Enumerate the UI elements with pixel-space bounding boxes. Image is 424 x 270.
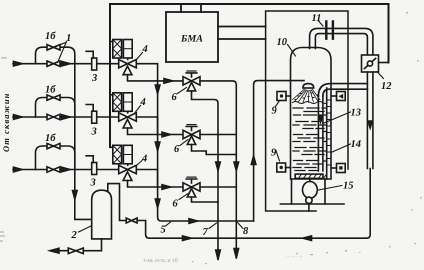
row 2 main pipe — [13, 117, 158, 135]
actuator U row3 — [127, 164, 129, 166]
wire return from 12 pipe — [366, 169, 370, 239]
bypass loop row 3 — [36, 146, 75, 170]
sensor 9 lower right — [337, 164, 346, 173]
leader 2 — [79, 226, 92, 232]
valve on vessel2 outlet — [126, 218, 137, 223]
svg-text:6: 6 — [172, 92, 178, 103]
water shading — [293, 108, 326, 171]
valve drain vessel2 — [68, 248, 83, 254]
perforated plate — [295, 174, 323, 178]
svg-text:4: 4 — [142, 44, 148, 55]
leader 5 — [166, 222, 171, 226]
regulator 12 — [362, 55, 379, 72]
valve row 3 main — [47, 167, 60, 172]
valve 6 row3 — [158, 186, 183, 188]
arrow line7 down mid — [216, 162, 221, 171]
wire vessel2 top to valve — [108, 184, 367, 239]
leader 4 r2 — [135, 106, 141, 113]
enclosure room — [266, 11, 348, 211]
svg-text:9: 9 — [272, 106, 278, 117]
BMA unit — [166, 12, 218, 62]
svg-text:13: 13 — [351, 108, 362, 119]
wire common vertical to vessel 2 — [75, 64, 92, 220]
wire control to row3 actuator — [110, 146, 113, 148]
svg-text:1б: 1б — [45, 31, 56, 42]
arrow line8 down mid — [234, 162, 239, 171]
arrow row1 inlet — [14, 61, 23, 66]
leader 4 r3 — [136, 161, 142, 167]
bypass loop row 2 — [36, 98, 75, 118]
svg-text:12: 12 — [381, 81, 392, 92]
valve 1b row 1 — [47, 45, 60, 50]
arrow manifold down c — [155, 199, 160, 208]
actuator U row2 — [127, 111, 129, 113]
svg-text:8: 8 — [243, 226, 249, 237]
leader 8 — [238, 223, 244, 229]
arrow drain left — [50, 248, 59, 253]
wire control to row2 actuator — [110, 94, 113, 96]
arrow riser up — [251, 156, 256, 165]
valve 1b row 3 — [47, 143, 60, 148]
svg-text:3: 3 — [90, 178, 96, 189]
tank legs — [292, 179, 326, 204]
wire valve6 r3 bottom port — [192, 197, 219, 202]
wire riser to sprayer — [254, 81, 304, 221]
arrow line7 down end — [216, 250, 221, 260]
svg-text:4: 4 — [141, 154, 147, 165]
leader 10 — [288, 45, 296, 57]
arrow row1 after valve — [62, 61, 71, 66]
frame top pipe — [110, 4, 389, 147]
arrow row2 inlet — [14, 115, 23, 120]
double pipe below 12 — [367, 72, 373, 169]
valve 6 row1 — [158, 80, 183, 82]
svg-text:БМА: БМА — [180, 34, 203, 45]
leader 6 r1 — [178, 88, 187, 94]
valve 4 row 2 three-way — [119, 113, 137, 121]
leader 9 lower — [276, 151, 280, 162]
leader 4 r1 — [137, 53, 143, 60]
svg-text:2: 2 — [71, 230, 78, 241]
valve 4 row 3 three-way — [119, 165, 137, 173]
sensor 9 upper left — [277, 92, 286, 101]
orifice 11 flanges — [326, 22, 333, 39]
svg-text:1: 1 — [66, 33, 71, 44]
leader label 1 row1 — [56, 42, 67, 62]
arrow line5 right — [189, 219, 198, 224]
leader 11 — [319, 21, 324, 26]
actuator U row1 — [127, 58, 129, 60]
valve 4 row 1 three-way — [119, 60, 137, 68]
svg-text:6: 6 — [173, 199, 179, 210]
wire BMA top stubs — [181, 4, 201, 12]
wire 12 to frame — [379, 62, 389, 64]
scan specks — [406, 12, 408, 14]
valve 6 row2 — [158, 134, 183, 136]
arrow return right — [183, 236, 192, 241]
svg-text:14: 14 — [351, 139, 362, 150]
wire manifold 5 vertical — [158, 81, 254, 221]
svg-text:4: 4 — [140, 97, 146, 108]
wire vessel2 drain — [57, 239, 102, 251]
arrow row2 after valve — [62, 115, 71, 120]
pump 15 — [309, 178, 311, 181]
scan smudges left edge — [0, 232, 5, 241]
water surface — [293, 102, 328, 104]
device 3 row 3 — [92, 163, 97, 175]
valve 1 row 1 — [47, 61, 60, 66]
device 3 row 1 — [92, 58, 97, 70]
valve row 2 main — [47, 114, 60, 119]
row 3 main pipe — [13, 170, 158, 188]
dip pipe 13 with elbow — [318, 96, 323, 171]
gauge 14 ticks — [327, 100, 331, 165]
svg-text:3: 3 — [91, 127, 97, 138]
leader 15 — [319, 186, 343, 191]
wire valve6 r2 bottom port — [192, 145, 237, 155]
arrow row3 after valve — [62, 167, 71, 172]
sprayer nozzle — [303, 84, 314, 88]
arrow row3 inlet — [14, 167, 23, 172]
arrow down feed vessel2 — [73, 191, 78, 200]
steam outlet neck double pipe — [310, 28, 373, 55]
leader 6 r2 — [180, 140, 188, 146]
arrow return left — [303, 236, 312, 241]
svg-text:7: 7 — [203, 227, 209, 238]
svg-text:1б: 1б — [45, 85, 56, 96]
arrow in pipe13 down — [319, 116, 323, 123]
device 3 row 2 — [92, 111, 97, 123]
arrow line8 down end — [234, 249, 239, 259]
vessel 10 shell — [291, 48, 332, 180]
wire control to row1 actuator — [110, 41, 113, 43]
svg-text:10: 10 — [277, 37, 288, 48]
spray fan — [293, 89, 320, 102]
wire valve6 r1 bottom port — [192, 91, 219, 260]
sensor 9 upper right — [337, 92, 346, 101]
row 1 main pipe — [13, 64, 158, 81]
svg-text:1б: 1б — [45, 133, 56, 144]
gauge 14 inner wall — [326, 88, 328, 179]
svg-text:11: 11 — [312, 13, 322, 24]
bypass loop row 1 — [36, 47, 75, 64]
tank base line — [280, 203, 344, 205]
leader 7 — [209, 223, 217, 229]
leader 13 — [324, 112, 351, 123]
wire BMA right stubs — [218, 27, 266, 40]
valve 1b row 2 — [47, 95, 60, 100]
svg-text:.. ... . ..: .. ... . .. — [286, 253, 303, 259]
arrow manifold down a — [155, 85, 160, 94]
svg-text:От скважин: От скважин — [1, 93, 11, 153]
wire valve6 r2 right port — [200, 134, 236, 136]
leader 9 upper — [276, 102, 280, 107]
arrow manifold down b — [155, 142, 160, 151]
svg-text:5: 5 — [161, 225, 166, 236]
arrow in pipe down — [368, 121, 372, 128]
svg-text:15: 15 — [343, 181, 354, 192]
leader 6 r3 — [179, 194, 188, 200]
wire valve6 r1 right port — [200, 81, 236, 258]
svg-text:3: 3 — [91, 73, 97, 84]
svg-text:т-нь есть и тб: т-нь есть и тб — [143, 257, 178, 264]
sensor 9 lower left — [277, 163, 286, 172]
vessel 2 — [92, 190, 112, 239]
leader 14 — [331, 144, 351, 153]
wire valve6 r3 right port — [200, 186, 236, 188]
svg-text:9: 9 — [271, 148, 277, 159]
leader 12 — [377, 72, 384, 79]
svg-text:6: 6 — [174, 144, 180, 155]
